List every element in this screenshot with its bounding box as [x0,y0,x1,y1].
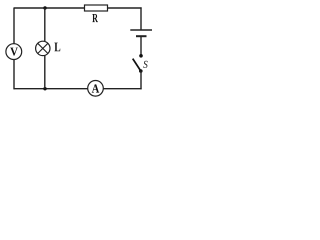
wire lamp branch lower (lamp down to bottom junction) [44,55,46,88]
wire left-upper (voltmeter up to top-left corner) [13,8,15,44]
wire bottom-right (corner to ammeter) [104,88,142,90]
wire right-lower (switch to bottom-right corner) [140,71,142,89]
switch S bottom terminal dot [139,69,143,73]
switch S top terminal dot [139,54,143,58]
wire top-right (resistor to top-right corner) [108,7,142,9]
lamp L (bulb circle with X) [36,41,50,55]
wire right-upper (top corner down to battery) [140,7,142,30]
node junction bottom (lamp branch tap) [43,87,46,90]
wire top-left (top rail from left corner to resistor) [14,7,86,9]
wire right-mid (battery down to switch) [140,36,142,55]
label S [143,61,147,68]
wire left-lower (bottom corner up to voltmeter) [13,60,15,90]
resistor R [85,5,108,22]
label L [54,43,60,52]
switch S blade (open) [133,59,141,71]
battery cell (short negative plate) [136,35,147,37]
node junction top (lamp branch tap) [43,6,46,9]
wire bottom-left (ammeter to bottom-left corner) [14,88,88,90]
ammeter A [88,81,104,97]
wire lamp branch upper (junction down to lamp) [44,8,46,42]
voltmeter V [6,44,22,60]
battery cell (long positive plate) [130,29,152,31]
